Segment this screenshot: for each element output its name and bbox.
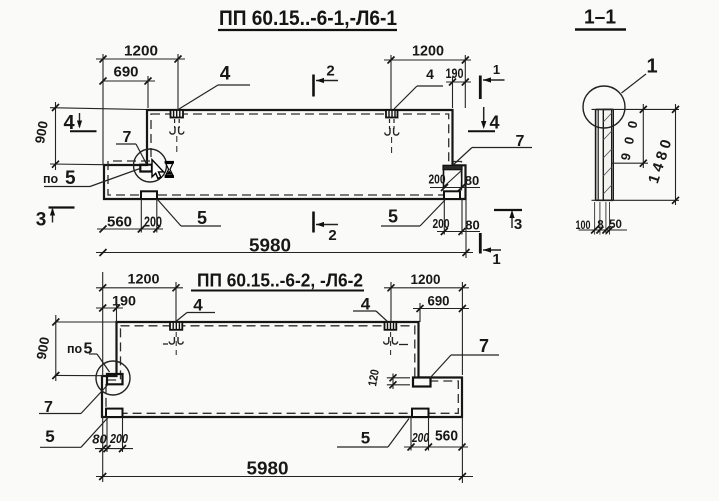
svg-text:1200: 1200 xyxy=(411,271,441,287)
notch 7 right panel1 xyxy=(443,165,462,187)
label 1 section xyxy=(622,56,658,94)
label 4 left panel2 xyxy=(177,296,216,322)
leader 5 bottom-right panel1 xyxy=(381,200,445,227)
dim 1200 left panel1 xyxy=(96,43,185,166)
panel1 inner dashed contour xyxy=(108,114,462,195)
title panel 1 xyxy=(218,7,397,30)
dim 190 panel2 xyxy=(96,293,136,323)
title section 1-1 xyxy=(575,7,626,30)
svg-text:1200: 1200 xyxy=(128,271,160,287)
svg-text:2: 2 xyxy=(326,63,334,80)
dim 900 left panel2 xyxy=(34,315,116,381)
panel2 outer contour xyxy=(102,322,462,417)
recess 5 bottom-left panel1 xyxy=(141,191,157,199)
svg-text:690: 690 xyxy=(428,293,450,309)
svg-text:5: 5 xyxy=(84,341,93,358)
dim 200 560 bottom-right panel2 xyxy=(404,417,468,451)
svg-text:80: 80 xyxy=(92,432,107,447)
svg-text:4: 4 xyxy=(489,113,499,133)
svg-text:120: 120 xyxy=(365,368,382,387)
svg-text:5: 5 xyxy=(388,207,398,227)
svg-text:5: 5 xyxy=(361,429,370,448)
dim 900 section xyxy=(618,104,647,168)
svg-text:7: 7 xyxy=(479,336,489,356)
svg-text:100: 100 xyxy=(576,220,591,232)
svg-text:4: 4 xyxy=(193,296,203,315)
title panel 2 xyxy=(191,270,364,291)
label 7 panel1 left xyxy=(116,129,147,164)
anchor 4 left panel2 xyxy=(163,322,183,358)
svg-text:4: 4 xyxy=(426,66,434,82)
svg-text:1: 1 xyxy=(492,251,500,268)
svg-text:8: 8 xyxy=(597,220,604,232)
svg-text:190: 190 xyxy=(112,293,136,309)
label 4 left panel1 xyxy=(179,64,250,110)
svg-text:2: 2 xyxy=(328,227,336,244)
detail circle panel2 left xyxy=(96,361,130,395)
svg-text:5: 5 xyxy=(65,168,76,189)
svg-text:5: 5 xyxy=(45,427,54,446)
detail circle panel1 left xyxy=(134,149,167,182)
svg-text:1–1: 1–1 xyxy=(584,7,616,29)
label 5 bottom-right panel2 xyxy=(337,419,409,448)
section 1-1 hatched slab xyxy=(596,109,614,200)
leader po5 panel2 xyxy=(67,341,110,373)
svg-text:560: 560 xyxy=(435,428,458,445)
svg-text:1: 1 xyxy=(493,62,500,77)
svg-text:ПП 60.15..-6-1,-Л6-1: ПП 60.15..-6-1,-Л6-1 xyxy=(219,7,397,30)
notch 7 panel2 right xyxy=(413,378,431,387)
dim 900 left panel1 xyxy=(32,102,146,170)
panel2 inner dashed contour xyxy=(106,326,458,414)
leader po5 panel1 xyxy=(43,168,140,189)
section mark 2 top xyxy=(314,63,339,97)
dim 80 200 bottom-left panel2 xyxy=(92,417,133,452)
section mark 2 bottom xyxy=(314,212,339,245)
recess 5 bottom-left panel2 xyxy=(106,409,123,417)
section detail circle xyxy=(583,86,625,128)
dim 1200 right panel1 xyxy=(384,43,471,111)
cursor hourglass xyxy=(165,161,174,178)
dim 560 200 bottom-left panel1 xyxy=(97,199,163,233)
section bottom extension lines xyxy=(595,202,610,235)
dim 5980 panel1 xyxy=(96,199,473,258)
svg-text:560: 560 xyxy=(107,214,132,231)
dim 690 panel2 xyxy=(413,293,469,323)
svg-text:200: 200 xyxy=(144,214,162,231)
svg-text:200: 200 xyxy=(433,216,450,231)
section mark 3 right xyxy=(494,210,522,233)
svg-text:190: 190 xyxy=(446,65,464,81)
corner notch 7 panel2 left xyxy=(107,374,123,384)
dim 690 panel1 xyxy=(100,64,156,109)
svg-text:1200: 1200 xyxy=(412,43,444,60)
label 4 right panel1 xyxy=(394,66,443,109)
svg-text:1: 1 xyxy=(646,56,657,78)
dim 120 panel2 right xyxy=(365,368,410,389)
dim 190 panel1 xyxy=(446,65,472,108)
label 5 bottom-left panel2 xyxy=(40,418,108,448)
section 1-1 left flange lines xyxy=(596,109,599,200)
svg-text:4: 4 xyxy=(220,64,231,85)
svg-text:5: 5 xyxy=(197,208,207,228)
section mark 4 down-left xyxy=(63,112,96,134)
svg-text:5980: 5980 xyxy=(249,236,291,256)
svg-text:80: 80 xyxy=(465,173,479,188)
label 7 panel2 left xyxy=(39,385,108,417)
anchor 4 right panel2 xyxy=(384,322,408,358)
dim 1480 section xyxy=(645,104,679,205)
section mark 4 down-right xyxy=(468,107,500,133)
label 7 right panel1 xyxy=(453,133,532,165)
leader 5 bottom-left panel1 xyxy=(158,200,222,229)
svg-text:3: 3 xyxy=(36,210,47,231)
svg-text:1200: 1200 xyxy=(124,43,158,60)
section extension lines xyxy=(592,109,680,200)
panel1 outer contour xyxy=(104,110,466,199)
svg-text:50: 50 xyxy=(609,219,622,231)
dim 5980 panel2 xyxy=(96,417,473,483)
svg-text:690: 690 xyxy=(114,64,139,81)
dim 1200 left panel2 xyxy=(96,271,183,377)
svg-text:5980: 5980 xyxy=(247,459,289,479)
dim 1200 right panel2 xyxy=(384,271,469,375)
corner notch 7 panel1 left xyxy=(140,165,152,172)
section mark 1 top xyxy=(480,62,504,99)
label 4 right panel2 xyxy=(353,295,388,323)
svg-text:3: 3 xyxy=(514,216,522,233)
svg-text:ПП 60.15..-6-2, -Л6-2: ПП 60.15..-6-2, -Л6-2 xyxy=(197,270,363,291)
svg-text:200: 200 xyxy=(411,430,429,445)
section mark 3 left xyxy=(36,208,75,231)
anchor 4 left panel1 xyxy=(170,110,184,152)
dim 200 80 upper right panel1 xyxy=(429,172,481,192)
label 7 panel2 right xyxy=(430,336,499,378)
cursor arrow xyxy=(152,160,164,179)
svg-text:200: 200 xyxy=(429,172,446,187)
svg-text:по: по xyxy=(43,172,59,186)
section mark 1 bottom xyxy=(480,233,501,268)
svg-text:80: 80 xyxy=(465,218,479,233)
dim 100 8 50 section xyxy=(576,219,628,234)
recess 5 bottom-right panel1 xyxy=(444,191,460,199)
dim 200 80 lower right panel1 xyxy=(433,199,481,235)
svg-text:200: 200 xyxy=(109,431,128,446)
svg-text:по: по xyxy=(67,342,83,356)
recess 5 bottom-right panel2 xyxy=(412,409,429,417)
anchor 4 right panel1 xyxy=(385,110,399,153)
